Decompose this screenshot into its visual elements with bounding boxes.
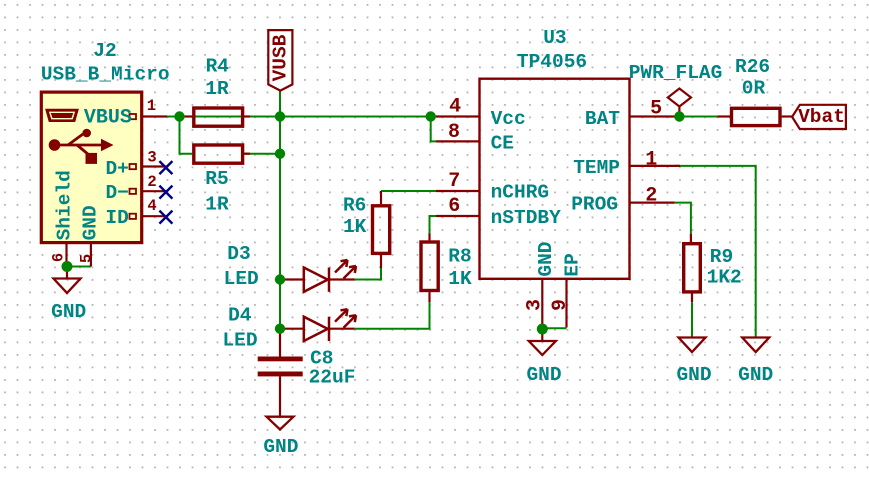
svg-text:R5: R5 (205, 168, 228, 190)
svg-text:R6: R6 (343, 194, 366, 216)
svg-text:LED: LED (224, 268, 259, 290)
svg-text:GND: GND (263, 436, 298, 458)
svg-text:GND: GND (676, 364, 711, 386)
svg-text:R8: R8 (448, 245, 471, 267)
svg-text:GND: GND (80, 205, 102, 240)
svg-text:R26: R26 (735, 56, 770, 78)
svg-text:3: 3 (524, 299, 547, 311)
svg-text:5: 5 (78, 254, 96, 263)
svg-text:D−: D− (105, 182, 128, 204)
svg-text:D4: D4 (228, 304, 252, 326)
svg-text:6: 6 (448, 195, 460, 218)
svg-text:EP: EP (562, 253, 584, 276)
svg-text:J2: J2 (93, 40, 116, 62)
svg-text:1R: 1R (205, 193, 229, 215)
svg-text:LED: LED (222, 330, 257, 352)
svg-text:D+: D+ (105, 158, 128, 180)
svg-text:Shield: Shield (54, 170, 76, 240)
svg-text:9: 9 (549, 299, 572, 311)
svg-text:5: 5 (650, 97, 662, 120)
svg-text:TP4056: TP4056 (517, 51, 587, 73)
svg-text:4: 4 (449, 95, 461, 118)
svg-text:7: 7 (448, 170, 460, 193)
svg-text:nSTDBY: nSTDBY (491, 207, 562, 229)
svg-text:VUSB: VUSB (270, 34, 292, 81)
svg-text:R9: R9 (710, 246, 733, 268)
svg-text:2: 2 (645, 185, 657, 208)
svg-text:BAT: BAT (585, 108, 620, 130)
svg-text:nCHRG: nCHRG (491, 182, 550, 204)
svg-text:GND: GND (535, 241, 557, 276)
svg-text:22uF: 22uF (309, 367, 356, 389)
svg-text:3: 3 (147, 148, 156, 166)
svg-text:1K2: 1K2 (707, 267, 742, 289)
svg-text:PROG: PROG (571, 193, 618, 215)
svg-text:CE: CE (491, 132, 514, 154)
svg-text:GND: GND (51, 301, 86, 323)
svg-text:ID: ID (105, 207, 128, 229)
svg-text:0R: 0R (742, 77, 766, 99)
svg-text:Vbat: Vbat (798, 106, 845, 128)
svg-text:1: 1 (147, 97, 156, 115)
svg-text:TEMP: TEMP (573, 157, 620, 179)
svg-text:U3: U3 (543, 27, 566, 49)
svg-text:USB_B_Micro: USB_B_Micro (41, 63, 170, 85)
svg-text:8: 8 (448, 121, 460, 144)
svg-text:GND: GND (526, 364, 561, 386)
svg-text:6: 6 (50, 253, 68, 262)
svg-text:1: 1 (645, 149, 657, 172)
svg-text:GND: GND (738, 364, 773, 386)
svg-text:D3: D3 (227, 243, 250, 265)
svg-text:1K: 1K (343, 216, 367, 238)
svg-text:Vcc: Vcc (491, 108, 526, 130)
svg-text:R4: R4 (206, 55, 230, 77)
svg-text:4: 4 (147, 197, 156, 215)
svg-text:PWR_FLAG: PWR_FLAG (629, 62, 723, 84)
svg-text:1R: 1R (205, 78, 229, 100)
svg-text:1K: 1K (448, 268, 472, 290)
svg-text:VBUS: VBUS (84, 107, 132, 130)
svg-text:2: 2 (147, 173, 156, 191)
